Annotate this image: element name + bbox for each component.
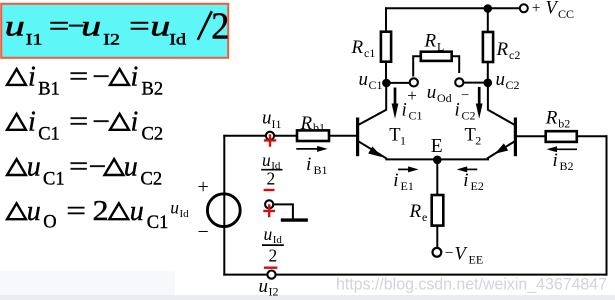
- transistor T1 base bar: [356, 118, 359, 157]
- label RL: [424, 31, 445, 54]
- resistor Rb1: [297, 130, 329, 141]
- red minus under lower fraction: [264, 267, 278, 269]
- svg-text:T: T: [389, 126, 400, 146]
- svg-text:i: i: [131, 107, 139, 138]
- ground bar: [281, 218, 308, 221]
- bottom gray strip: [0, 295, 615, 300]
- svg-text:E1: E1: [401, 179, 414, 193]
- svg-text:i: i: [28, 107, 36, 138]
- label Rb2: [545, 108, 571, 131]
- wire: right output terminal to uC2 node: [464, 82, 488, 84]
- svg-text:B1: B1: [38, 80, 60, 100]
- svg-text:i: i: [553, 150, 558, 171]
- svg-text:b2: b2: [558, 117, 570, 131]
- svg-text:u: u: [27, 196, 41, 227]
- wire: uI1 node to left corner: [224, 135, 266, 137]
- svg-text:−: −: [89, 152, 107, 182]
- svg-text:u: u: [5, 8, 25, 42]
- svg-text:u: u: [124, 152, 138, 183]
- resistor RL: [421, 52, 452, 61]
- wire: right corner to Rb2: [577, 135, 607, 137]
- svg-text:=: =: [69, 105, 88, 136]
- svg-text:R: R: [351, 37, 364, 58]
- terminal -VEE: [433, 248, 442, 257]
- svg-text:Id: Id: [169, 30, 186, 48]
- terminal output left: [410, 78, 418, 86]
- label uC1: [359, 69, 383, 92]
- svg-text:R: R: [496, 39, 509, 60]
- equation 2: [7, 60, 163, 99]
- equation 5: [7, 195, 168, 233]
- svg-text:e: e: [422, 210, 427, 224]
- label iB1: [306, 154, 328, 177]
- red + at mid terminal: [263, 204, 275, 217]
- svg-text:u: u: [259, 276, 269, 297]
- wire: T2 emitter diagonal: [488, 142, 514, 159]
- svg-text:E: E: [431, 136, 443, 157]
- svg-text:I1: I1: [26, 30, 43, 48]
- svg-text:+: +: [532, 0, 541, 17]
- svg-text:O: O: [43, 213, 56, 233]
- svg-text:L: L: [437, 40, 444, 54]
- svg-text:u: u: [170, 198, 179, 218]
- svg-text:T: T: [465, 126, 476, 146]
- wire: Rb2 to T2 base: [517, 135, 546, 137]
- label uC2: [496, 69, 520, 92]
- wire: ground lead from mid terminal: [273, 204, 293, 218]
- arrow iB1: [296, 146, 327, 152]
- svg-text:C1: C1: [147, 213, 169, 233]
- fraction bar lower: [262, 244, 284, 246]
- wire: Rc1 top lead: [385, 8, 387, 31]
- arrow iC1 (bold down): [392, 88, 399, 119]
- faint page tint lower-left: [0, 271, 175, 295]
- wire: Re to VEE terminal: [436, 226, 438, 247]
- svg-text:i: i: [393, 170, 398, 191]
- svg-text:C1: C1: [369, 78, 383, 92]
- svg-text:u: u: [150, 8, 170, 42]
- svg-text:i: i: [306, 154, 311, 175]
- label iC2: [455, 100, 476, 123]
- label Rc2: [496, 39, 521, 62]
- wire: Rc2 top lead: [487, 8, 489, 32]
- wire: top rail: [386, 7, 520, 9]
- svg-text:2: 2: [475, 134, 481, 148]
- label uId (source): [170, 198, 189, 221]
- wire: bottom rail left of uI2: [224, 274, 267, 276]
- wire: T1 emitter diagonal: [359, 142, 386, 159]
- svg-text:2: 2: [269, 245, 278, 265]
- wire: RL left lead: [413, 56, 421, 75]
- junction dot top rail / Rc2: [484, 4, 493, 13]
- source uId circle: [207, 194, 240, 227]
- svg-text:C1: C1: [409, 109, 423, 123]
- node uI1: [266, 132, 274, 140]
- label Rc1: [351, 37, 376, 60]
- label iB2: [553, 150, 574, 173]
- transistor T2 emitter arrowhead: [496, 144, 508, 153]
- svg-text:=: =: [69, 151, 88, 182]
- svg-text:2: 2: [267, 169, 276, 189]
- svg-text:R: R: [409, 201, 422, 222]
- svg-text:C2: C2: [142, 124, 164, 144]
- svg-text:u: u: [262, 150, 271, 170]
- arrow iB2: [547, 146, 578, 152]
- svg-text:+: +: [407, 86, 417, 105]
- wire: E node to Re: [436, 160, 438, 195]
- arrow iE2: [457, 166, 478, 172]
- node mid terminal: [265, 200, 273, 208]
- svg-text:i: i: [28, 62, 36, 93]
- svg-text:https://blog.csdn.net/weixin_4: https://blog.csdn.net/weixin_43674847: [336, 276, 607, 294]
- svg-text:i: i: [455, 100, 460, 121]
- fraction bar upper: [261, 169, 282, 171]
- wire: right vertical: [606, 136, 608, 274]
- svg-text:c1: c1: [364, 46, 375, 60]
- svg-text:EE: EE: [469, 252, 484, 266]
- label Re: [409, 201, 428, 224]
- svg-text:u: u: [81, 8, 101, 42]
- svg-text:R: R: [300, 113, 313, 134]
- equation 4: [7, 151, 162, 190]
- svg-text:b1: b1: [313, 121, 325, 135]
- svg-text:i: i: [131, 62, 139, 93]
- svg-text:i: i: [463, 170, 468, 191]
- svg-text:u: u: [27, 152, 41, 183]
- wire: Rc1 bottom lead to uC1 node: [385, 62, 387, 83]
- wire: T2 collector: [488, 83, 514, 125]
- svg-text:u: u: [264, 224, 273, 244]
- svg-text:u: u: [496, 69, 506, 90]
- label uId/2 upper fraction: [262, 150, 281, 189]
- svg-text:C2: C2: [506, 78, 520, 92]
- label +VCC: [532, 0, 574, 21]
- svg-text:2: 2: [211, 6, 229, 48]
- wire: T1 collector: [359, 83, 386, 125]
- terminal output right: [455, 78, 463, 86]
- label T2: [465, 126, 482, 148]
- label -VEE: [445, 244, 483, 266]
- junction dot E: [433, 156, 442, 165]
- svg-text:=: =: [49, 9, 70, 42]
- svg-text:u: u: [262, 108, 272, 129]
- junction dot uC2: [484, 79, 493, 88]
- transistor T2 base bar: [514, 118, 517, 157]
- label uI2: [259, 276, 279, 299]
- wire: left vertical through source: [223, 136, 225, 275]
- label iE1: [393, 170, 414, 193]
- svg-text:Id: Id: [180, 208, 190, 220]
- svg-text:B2: B2: [142, 80, 164, 100]
- label Rb1: [300, 113, 326, 135]
- svg-text:B1: B1: [314, 163, 328, 177]
- equation 3: [7, 105, 163, 144]
- equation 1: uI1 = -uI2 = uId/2: [5, 6, 230, 48]
- resistor Rb2: [546, 131, 577, 142]
- svg-text:R: R: [424, 31, 437, 52]
- label uOd: [427, 82, 452, 105]
- label uId/2 lower fraction: [264, 224, 283, 265]
- svg-text:u: u: [427, 82, 437, 103]
- wire: emitter rail: [386, 158, 488, 160]
- svg-text:I2: I2: [103, 30, 120, 48]
- svg-text:u: u: [130, 196, 144, 227]
- red + at uI1: [264, 134, 276, 146]
- highlighted equation box: [1, 4, 228, 58]
- wire: RL right lead: [452, 56, 460, 72]
- red minus under upper fraction: [264, 189, 275, 191]
- arrow iE1: [398, 166, 419, 172]
- svg-text:C2: C2: [462, 109, 476, 123]
- terminal +VCC: [520, 4, 528, 12]
- svg-text:=: =: [69, 60, 88, 91]
- svg-text:+: +: [198, 176, 209, 198]
- svg-text:2: 2: [93, 195, 109, 227]
- svg-text:−: −: [198, 221, 209, 243]
- svg-text:i: i: [402, 100, 407, 121]
- svg-text:C1: C1: [38, 124, 60, 144]
- wire: Rb1 to uI1 node: [274, 135, 297, 137]
- svg-text:−: −: [92, 107, 110, 137]
- label iE2: [463, 170, 484, 193]
- node uI2: [267, 271, 275, 279]
- svg-text:C2: C2: [141, 170, 163, 190]
- svg-text:−: −: [461, 87, 469, 103]
- resistor Rc1: [381, 32, 391, 62]
- junction dot uC1: [382, 79, 391, 88]
- svg-text:B2: B2: [560, 159, 574, 173]
- svg-text:=: =: [66, 195, 86, 226]
- svg-text:u: u: [359, 69, 369, 90]
- label T1: [389, 126, 406, 148]
- wire: Rc2 bottom lead to uC2 node: [487, 62, 489, 83]
- arrow iC2 (bold down): [476, 87, 483, 119]
- wire: uC1 node to output terminal: [386, 82, 409, 84]
- resistor Rc2: [483, 32, 493, 62]
- label iC1: [402, 100, 423, 123]
- resistor Re: [432, 195, 444, 226]
- svg-text:1: 1: [400, 134, 406, 148]
- wire: T1 base to Rb1: [329, 135, 356, 137]
- wire: bottom rail right of uI2: [276, 274, 607, 276]
- svg-text:−: −: [92, 62, 110, 92]
- svg-text:C1: C1: [43, 170, 65, 190]
- svg-text:Od: Od: [437, 91, 452, 105]
- svg-text:I1: I1: [272, 117, 282, 131]
- svg-text:I2: I2: [269, 284, 279, 298]
- svg-text:R: R: [545, 108, 558, 129]
- svg-text:CC: CC: [558, 7, 574, 21]
- svg-text:−: −: [445, 245, 454, 262]
- svg-text:=: =: [129, 9, 150, 42]
- svg-text:c2: c2: [509, 48, 520, 62]
- label uI1: [262, 108, 282, 131]
- transistor T1 emitter arrowhead: [369, 147, 381, 156]
- svg-text:E2: E2: [471, 179, 484, 193]
